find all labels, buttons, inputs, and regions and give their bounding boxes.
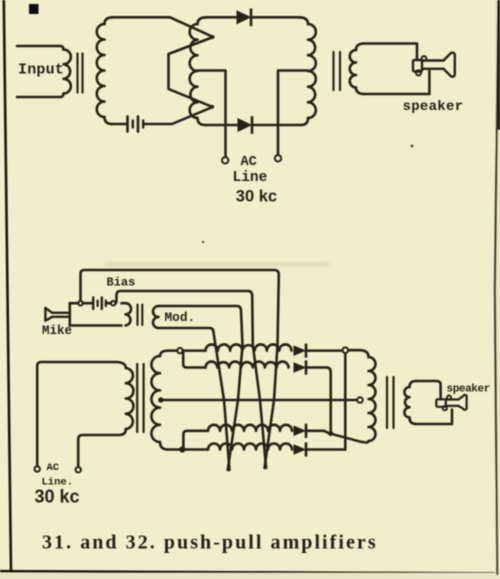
reactor row 3 winding	[183, 431, 208, 447]
reactor row 2 winding	[183, 353, 205, 368]
wire secondary bottom to speaker LS2	[416, 410, 452, 425]
battery BT1	[126, 117, 129, 132]
svg-text:30 kc: 30 kc	[35, 487, 80, 507]
modulation transformer T3 primary	[70, 303, 122, 325]
reactor row 1 winding	[183, 349, 206, 352]
saturable reactor X1/X2 gate winding left	[198, 17, 207, 24]
speaker LS1 driver	[413, 60, 422, 72]
wire reactor top to output transformer	[207, 16, 237, 19]
input transformer T1 core	[76, 54, 78, 93]
speaker LS2 driver	[436, 399, 446, 407]
wire diode D4 down	[308, 368, 331, 432]
input transformer T1 secondary winding	[105, 17, 114, 24]
diode D3	[294, 346, 305, 355]
bleed-through smudge	[105, 262, 329, 267]
svg-text:Line: Line	[233, 170, 268, 186]
bottom page border	[0, 571, 500, 573]
svg-text:Mike: Mike	[42, 324, 72, 338]
area below border	[0, 573, 500, 579]
control link wire between reactors X1 X2	[169, 37, 214, 107]
AC line terminal bottom-left 1	[35, 466, 40, 471]
wire junction to output primary top	[348, 350, 368, 357]
diode D1	[237, 11, 250, 23]
wire reactor bottom to output transformer	[205, 124, 238, 127]
wire input secondary top to reactor X1 control	[112, 17, 213, 37]
diode D2	[238, 119, 251, 132]
diode D4	[294, 363, 305, 372]
center tap wire right to AC terminal	[278, 71, 308, 155]
wire input secondary bottom to battery	[111, 123, 126, 126]
wire Mod bottom to control diagonal D1	[159, 328, 230, 470]
output transformer T2 secondary winding	[356, 44, 364, 51]
svg-text:Mod.: Mod.	[165, 310, 196, 325]
svg-text:Bias: Bias	[107, 276, 136, 290]
paper speck 2	[202, 241, 204, 243]
bias terminal right	[111, 301, 116, 306]
paper speck 1	[411, 145, 414, 148]
AC line terminal bottom-left 2	[76, 467, 81, 472]
bias wire 1 to control diagonal	[81, 270, 279, 468]
AC line terminal right	[275, 155, 281, 161]
wire Mod top to control diagonal D2	[159, 306, 243, 470]
speaker LS1 horn	[444, 53, 455, 77]
wire secondary bottom to speaker LS1	[364, 71, 429, 94]
junction node secondary top	[169, 349, 178, 352]
paper scan artifact mark top-left	[29, 4, 39, 14]
svg-text:Input: Input	[18, 61, 64, 78]
microphone MK1	[45, 308, 52, 321]
battery BT2	[92, 298, 94, 310]
right page edge shading	[495, 0, 500, 579]
input transformer T1 primary	[17, 46, 64, 50]
cross wire row1 to row4	[344, 353, 347, 449]
AC transformer T4 core	[136, 364, 138, 432]
speaker LS2 horn	[459, 395, 467, 410]
ink blob at reactor X2 tip	[210, 105, 214, 109]
svg-text:31. and 32. push-pull amplifie: 31. and 32. push-pull amplifiers	[42, 532, 378, 554]
center tap wire left to AC terminal	[198, 71, 226, 157]
ink blob at reactor X1 tip	[211, 35, 215, 39]
svg-text:AC: AC	[241, 155, 257, 170]
wire battery to reactor X2 control	[145, 107, 213, 124]
speaker LS1 body	[422, 61, 444, 69]
modulation transformer T3 core	[136, 305, 138, 326]
center tap wire to output transformer	[163, 399, 357, 402]
wire diode D5 to junction	[308, 431, 329, 433]
wire diode D6 to cross wire	[308, 448, 346, 451]
output transformer T2 core	[332, 52, 334, 90]
junction node row2-row3	[328, 431, 333, 436]
junction terminal row1	[343, 347, 349, 353]
diode D5	[294, 426, 305, 435]
bias terminal left	[78, 301, 83, 306]
wire diode D3 to junction	[308, 349, 343, 352]
svg-text:30 kc: 30 kc	[236, 188, 277, 206]
speaker LS2 body	[446, 400, 459, 406]
secondary center tap node	[158, 397, 163, 402]
output transformer T5 core	[386, 377, 388, 428]
wire secondary top to speaker LS1	[364, 44, 417, 59]
output transformer T5 primary	[369, 357, 376, 441]
AC transformer T4 secondary	[160, 351, 169, 356]
output transformer T5 secondary	[410, 381, 417, 387]
svg-text:speaker: speaker	[403, 99, 464, 115]
svg-text:AC: AC	[47, 462, 60, 474]
output transformer T2 primary winding	[299, 17, 308, 24]
junction node secondary bottom	[168, 448, 181, 451]
wire junction to output primary bottom	[333, 434, 369, 442]
AC transformer T4 primary	[37, 362, 126, 466]
AC line terminal left	[222, 157, 228, 163]
left page border	[4, 0, 11, 572]
modulation transformer T3 secondary	[153, 306, 159, 328]
svg-text:speaker: speaker	[447, 384, 490, 396]
wire secondary top to speaker LS2	[416, 381, 441, 399]
diode D6	[294, 445, 305, 454]
bias wire 2 to control diagonal	[116, 291, 267, 468]
reactor row 4 winding	[185, 448, 208, 451]
